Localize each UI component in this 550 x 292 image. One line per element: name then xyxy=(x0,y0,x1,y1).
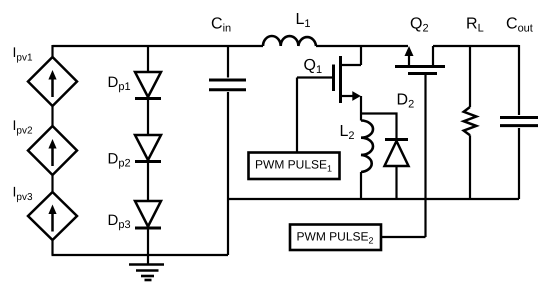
svg-text:Dp3: Dp3 xyxy=(108,212,131,231)
wire Q1 source down xyxy=(360,96,362,121)
current source Ipv1 xyxy=(28,57,77,106)
box PWM PULSE1 xyxy=(249,78,340,180)
wire L2 bottom xyxy=(360,172,362,199)
inductor L2 xyxy=(361,121,373,173)
wire bottom rail xyxy=(52,254,229,256)
svg-text:L1: L1 xyxy=(296,11,311,30)
wire top rail right xyxy=(433,45,519,47)
current source Ipv2 xyxy=(28,126,77,175)
wire branch to D2 xyxy=(361,114,397,140)
wire left rail bottom xyxy=(51,240,53,255)
wire Dp branch top xyxy=(147,45,149,72)
transistor Q2 xyxy=(395,46,445,74)
wire between Ipv2 and Ipv3 xyxy=(51,175,53,192)
svg-text:Ipv3: Ipv3 xyxy=(13,184,33,204)
wire left rail top xyxy=(51,45,53,57)
svg-text:L2: L2 xyxy=(340,123,355,142)
svg-text:Dp2: Dp2 xyxy=(108,151,131,170)
svg-text:PWM PULSE2: PWM PULSE2 xyxy=(297,230,374,246)
capacitor Cout xyxy=(500,45,538,199)
diode D2 xyxy=(385,140,409,200)
resistor RL xyxy=(464,45,477,199)
wire top rail middle xyxy=(316,45,408,47)
wire Dp3 to ground xyxy=(147,228,149,265)
wire between Dp1 and Dp2 xyxy=(147,99,149,136)
ground xyxy=(129,265,164,281)
wire between Dp2 and Dp3 xyxy=(147,162,149,202)
wire middle rail xyxy=(228,198,520,200)
wire Q2 gate down xyxy=(424,75,426,237)
current source Ipv3 xyxy=(28,192,77,240)
svg-text:D2: D2 xyxy=(397,92,415,111)
diode Dp3 xyxy=(135,201,161,228)
box PWM PULSE2 xyxy=(290,225,426,251)
capacitor Cin xyxy=(209,45,246,255)
svg-text:Q1: Q1 xyxy=(304,57,323,76)
svg-text:Dp1: Dp1 xyxy=(108,74,131,93)
svg-text:Ipv1: Ipv1 xyxy=(13,44,33,64)
svg-text:Cin: Cin xyxy=(211,16,231,35)
inductor L1 xyxy=(263,36,316,46)
svg-text:Ipv2: Ipv2 xyxy=(13,117,33,137)
svg-text:Q2: Q2 xyxy=(410,16,429,35)
transistor Q1 xyxy=(297,45,361,103)
diode Dp2 xyxy=(135,135,161,162)
svg-text:RL: RL xyxy=(466,16,484,35)
wire between Ipv1 and Ipv2 xyxy=(51,106,53,126)
wire top rail left xyxy=(53,45,264,47)
svg-text:Cout: Cout xyxy=(506,16,533,35)
svg-text:PWM PULSE1: PWM PULSE1 xyxy=(255,158,332,174)
diode Dp1 xyxy=(135,72,161,99)
